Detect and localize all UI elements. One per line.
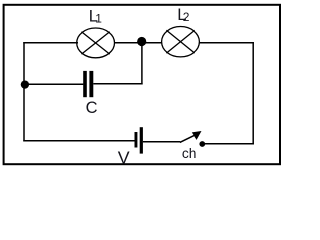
wire battery to switch (143, 141, 180, 143)
switch ch lever (180, 134, 196, 142)
wire capacitor to node A branch (93, 83, 142, 85)
svg-text:V: V (118, 148, 130, 168)
wire L1 to node A (114, 42, 162, 44)
wire node B to capacitor (25, 83, 84, 85)
node A junction dot (137, 37, 146, 46)
svg-text:1: 1 (95, 12, 102, 26)
switch ch dot terminal (199, 141, 205, 147)
battery V plates (135, 132, 138, 148)
capacitor C plates (83, 71, 87, 97)
wire top-left segment (23, 42, 78, 44)
wire left vertical (23, 42, 25, 141)
wire bottom-right segment (202, 143, 254, 145)
wire L2 to right side (199, 42, 254, 44)
svg-text:C: C (86, 99, 98, 117)
lamp L1 (77, 28, 115, 58)
node B junction dot (21, 80, 29, 88)
lamp L2 (162, 27, 200, 57)
wire right vertical (252, 42, 254, 145)
svg-text:2: 2 (183, 10, 190, 24)
svg-text:ch: ch (182, 146, 197, 161)
wire bottom-left segment (23, 140, 134, 142)
